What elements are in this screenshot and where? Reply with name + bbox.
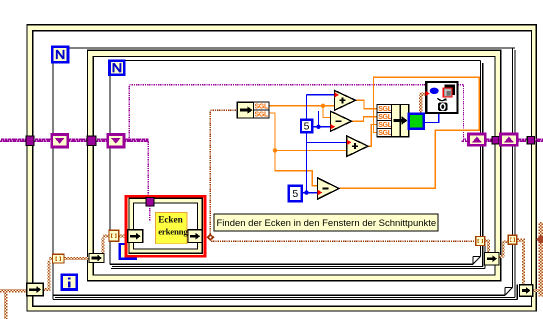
svg-text:SGL: SGL — [378, 130, 393, 137]
svg-text:SGL: SGL — [255, 112, 270, 119]
svg-text:Finden der Ecken in den Fenste: Finden der Ecken in den Fenstern der Sch… — [217, 218, 437, 229]
svg-text:SGL: SGL — [378, 122, 393, 129]
svg-text:SGL: SGL — [378, 106, 393, 113]
svg-text:SGL: SGL — [378, 114, 393, 121]
svg-text:5: 5 — [304, 120, 310, 132]
svg-text:SGL: SGL — [255, 104, 270, 111]
svg-text:Ecken: Ecken — [158, 215, 183, 225]
svg-text:5: 5 — [292, 188, 298, 200]
svg-text:erkenng: erkenng — [158, 226, 188, 236]
